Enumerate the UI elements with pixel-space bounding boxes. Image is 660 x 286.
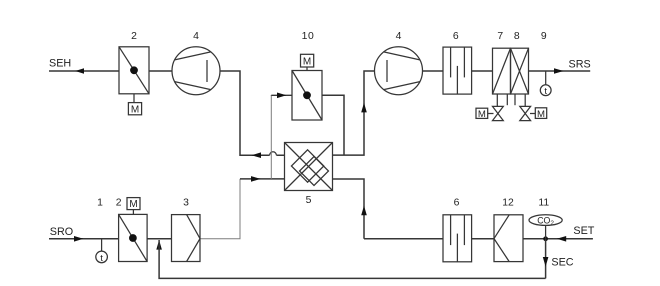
svg-text:M: M <box>478 109 486 120</box>
svg-text:5: 5 <box>306 195 312 206</box>
label 4 <box>396 31 402 42</box>
arrow flow right into exchanger <box>251 176 261 182</box>
svg-text:2: 2 <box>116 198 122 209</box>
wire damper to unit 3 <box>147 238 171 240</box>
wire damper 10 outlet joining supply riser <box>322 95 344 155</box>
svg-text:M: M <box>537 109 545 120</box>
damper 2 (fresh air) <box>119 214 148 261</box>
arrow SET flow left <box>557 236 566 242</box>
svg-text:3: 3 <box>183 198 189 209</box>
arrow SRO flow right <box>74 236 83 242</box>
unit 12 (silencer) <box>494 215 523 262</box>
wire to heat-exchanger 5 lower-left port <box>240 178 285 180</box>
svg-text:SET: SET <box>573 225 594 237</box>
damper 2 (exhaust) <box>119 47 149 94</box>
svg-text:11: 11 <box>538 198 549 209</box>
svg-text:M: M <box>303 56 311 67</box>
arrow SEC flow down <box>543 257 549 267</box>
pipe coil 7 return <box>506 94 508 105</box>
label 7 <box>497 31 503 42</box>
svg-text:t: t <box>544 86 547 97</box>
coil 7 (heater) <box>493 48 511 94</box>
label 12 <box>502 198 514 209</box>
svg-text:10: 10 <box>302 31 315 42</box>
wire jump over bypass line <box>270 152 277 155</box>
svg-text:9: 9 <box>541 31 547 42</box>
svg-text:6: 6 <box>454 198 460 209</box>
label 5 <box>306 195 312 206</box>
sensor t 9 <box>540 71 551 97</box>
label SRO <box>50 226 73 238</box>
wire fan 4 to heat-exchanger 5 upper-left port <box>220 71 285 155</box>
arrow bypass flow right <box>277 93 286 99</box>
sensor CO2 11 <box>529 215 562 239</box>
svg-text:4: 4 <box>193 31 199 42</box>
label 1 <box>97 198 103 209</box>
svg-text:SRO: SRO <box>50 226 73 238</box>
svg-text:t: t <box>100 253 103 264</box>
wire SRO fresh air inlet <box>49 238 119 240</box>
label SEH <box>49 58 71 70</box>
node SET junction <box>543 236 548 241</box>
label SRS <box>569 59 591 71</box>
svg-text:6: 6 <box>453 31 459 42</box>
actuator M of damper 2 <box>128 94 141 116</box>
fan 4 (exhaust fan) <box>172 47 220 95</box>
wire supply feed from unit 3 (light) <box>200 179 240 239</box>
arrow supply flow up <box>361 103 367 113</box>
svg-text:SEH: SEH <box>49 58 71 70</box>
actuator M of valve 7 <box>476 108 488 120</box>
wire SEH exhaust outlet <box>49 70 119 72</box>
damper 10 (bypass) <box>292 71 322 121</box>
pipe coil 8 supply <box>514 94 516 105</box>
wire recirculation bottom duct <box>159 240 545 278</box>
wire SET extract inlet <box>523 238 593 240</box>
valve of coil 8 <box>520 106 536 120</box>
svg-text:SEC: SEC <box>551 257 573 269</box>
label 2 <box>131 31 137 42</box>
wire exchanger upper-right port to fan 4 supply <box>333 71 375 155</box>
fan 4 (supply fan) <box>375 47 423 95</box>
wire supply outlet SRS <box>529 70 591 72</box>
label SEC <box>551 257 573 269</box>
actuator M of damper 10 <box>301 54 314 70</box>
pipe coil 8 return <box>524 94 526 106</box>
label 6 <box>454 198 460 209</box>
actuator M of fresh air damper <box>127 198 140 215</box>
svg-text:M: M <box>131 104 139 115</box>
svg-text:2: 2 <box>131 31 137 42</box>
unit 3 (preheater) <box>172 215 201 262</box>
valve of coil 7 <box>488 106 504 120</box>
arrow recirculation flow up <box>156 240 162 250</box>
wire filter 6 to unit 12 <box>472 238 494 240</box>
wire extract duct to filter 6 <box>364 238 443 240</box>
label 4 <box>193 31 199 42</box>
wire bypass riser to damper 10 (light) <box>270 96 272 179</box>
svg-text:4: 4 <box>396 31 402 42</box>
heat exchanger 5 (plate recuperator) <box>285 143 333 191</box>
pipe coil 7 supply <box>496 94 498 106</box>
wire SEC branch down <box>545 239 547 279</box>
label 3 <box>183 198 189 209</box>
filter 6 (extract) <box>443 215 472 262</box>
svg-text:8: 8 <box>514 31 520 42</box>
svg-text:SRS: SRS <box>569 59 591 71</box>
label 9 <box>541 31 547 42</box>
label 2 <box>116 198 122 209</box>
label 6 <box>453 31 459 42</box>
svg-text:M: M <box>129 199 137 210</box>
label SET <box>573 225 594 237</box>
svg-text:12: 12 <box>502 198 514 209</box>
arrow flow left out of exchanger <box>251 152 261 158</box>
svg-text:7: 7 <box>497 31 503 42</box>
arrow SEH flow left <box>75 68 84 74</box>
filter 6 (supply) <box>443 47 472 94</box>
svg-text:1: 1 <box>97 198 103 209</box>
label 8 <box>514 31 520 42</box>
actuator M of valve 8 <box>535 108 546 120</box>
arrow SRS flow right <box>554 68 564 74</box>
label 10 <box>302 31 315 42</box>
wire fan to filter 6 <box>423 70 444 72</box>
coil 8 (cooler) <box>511 48 529 94</box>
label 11 <box>538 198 549 209</box>
arrow extract flow up <box>361 206 367 216</box>
wire exchanger lower-right port down to extract duct <box>333 179 365 239</box>
wire damper 2 to fan 4 <box>149 70 172 72</box>
wire filter 6 to coils <box>472 70 493 72</box>
sensor t 1 <box>96 239 108 264</box>
